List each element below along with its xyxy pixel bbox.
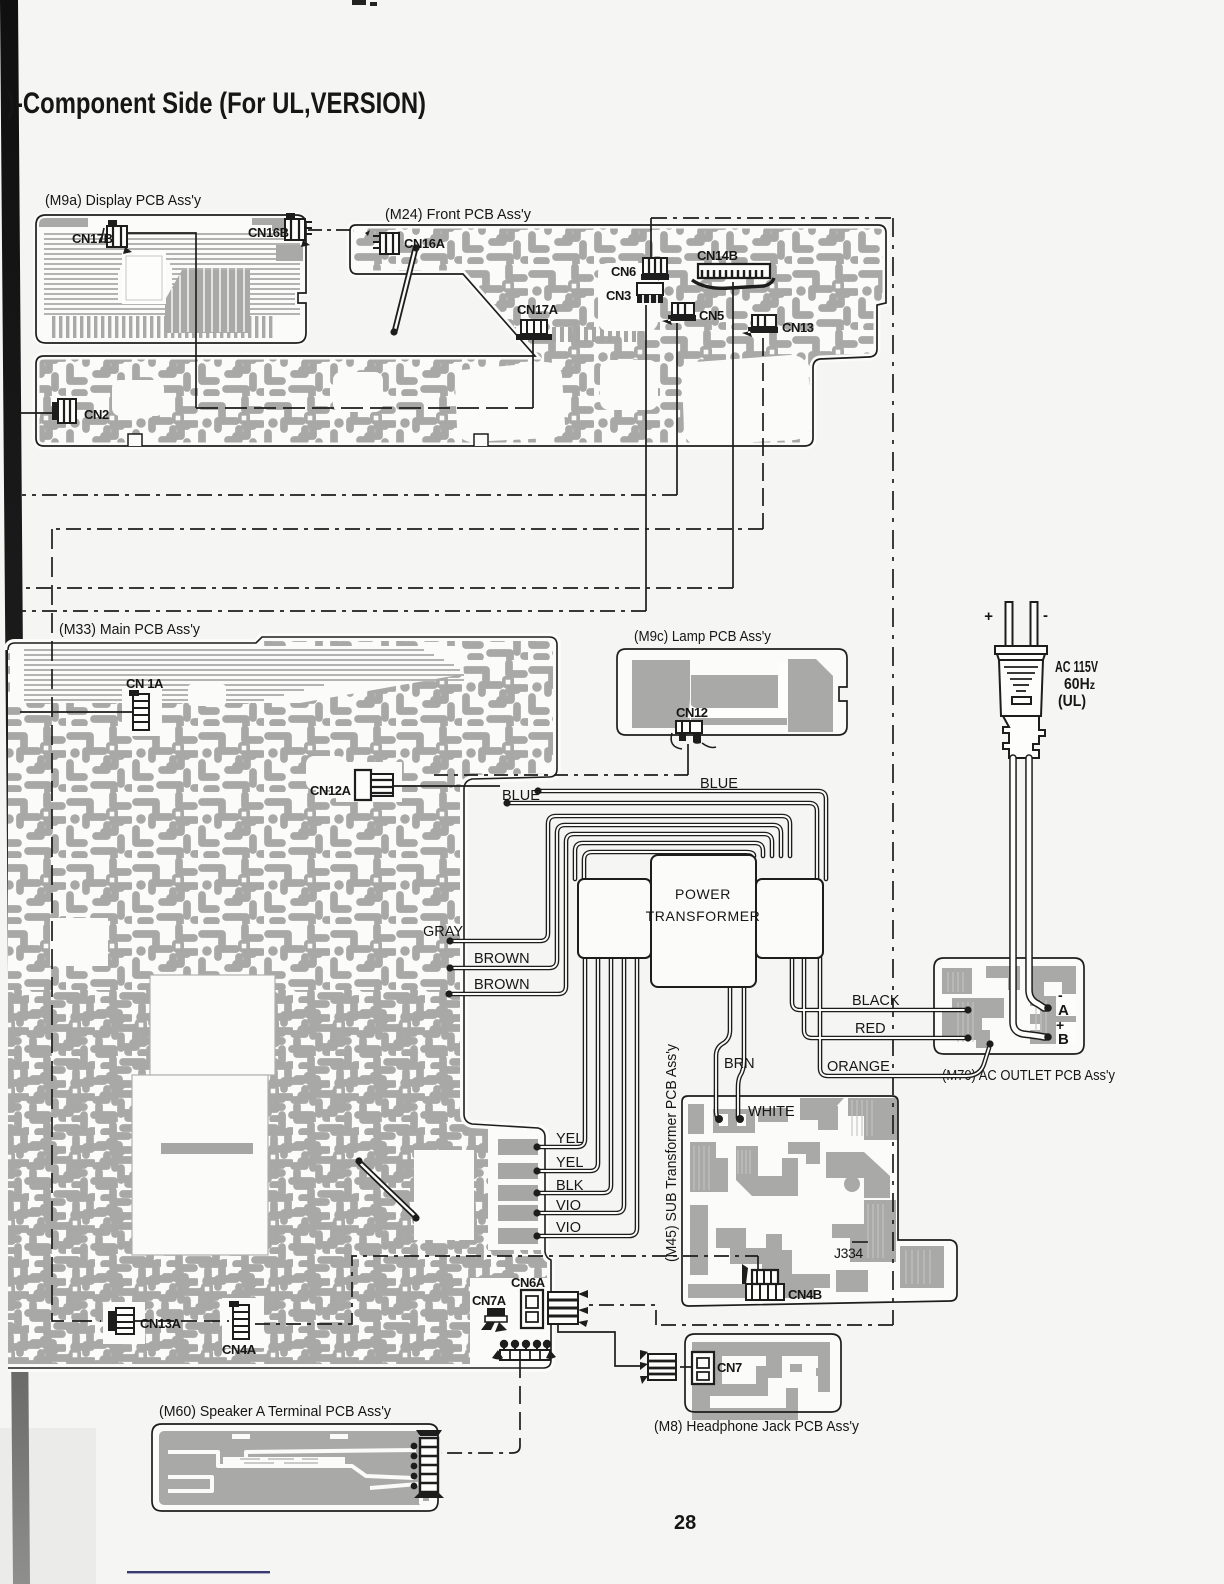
board M70 AC OUTLET PCB outline and traces bbox=[934, 958, 1084, 1054]
plug body bbox=[999, 660, 1043, 716]
svg-text:-: - bbox=[1043, 607, 1048, 624]
svg-text:(M9c) Lamp PCB Ass'y: (M9c) Lamp PCB Ass'y bbox=[634, 629, 772, 645]
svg-text:J334: J334 bbox=[834, 1245, 863, 1261]
svg-text:VIO: VIO bbox=[556, 1198, 581, 1214]
board M60 Speaker A Terminal PCB outline and traces bbox=[152, 1424, 438, 1511]
jumper wire on front pcb near CN16A bbox=[390, 244, 419, 335]
svg-text:AC 115V: AC 115V bbox=[1055, 659, 1098, 676]
connector CN7 bbox=[692, 1352, 714, 1384]
connector CN3 bbox=[637, 283, 663, 303]
scanner black bar left edge bbox=[0, 0, 30, 1584]
connector CN17B bbox=[101, 220, 132, 254]
wire dashed CN13A to CN4A bbox=[135, 1320, 229, 1322]
wire dashed CN17B to CN17A bbox=[196, 407, 533, 409]
wire CN12 drop to dash-dot bbox=[687, 744, 689, 775]
wire CN17A drop bbox=[532, 340, 534, 408]
svg-text:BLUE: BLUE bbox=[700, 776, 738, 792]
wire BLUE 1 bbox=[538, 791, 826, 879]
gray corner blobs bbox=[252, 215, 296, 231]
connector header with 5 dots (speaker wires) bbox=[492, 1340, 556, 1360]
svg-text:CN12: CN12 bbox=[676, 705, 708, 720]
wire dash-dot to speaker terminal bbox=[441, 1446, 520, 1453]
connector CN13 bbox=[742, 315, 778, 337]
svg-text:(UL): (UL) bbox=[1058, 693, 1086, 710]
connector CN14B bbox=[692, 264, 774, 288]
board M45 SUB Transformer PCB outline and traces bbox=[682, 1096, 957, 1306]
wire dash-dot CN16B to CN16A bbox=[308, 229, 352, 231]
svg-text:(M33) Main PCB Ass'y: (M33) Main PCB Ass'y bbox=[59, 622, 201, 638]
plug vent lines bbox=[1004, 667, 1038, 691]
power transformer right wing bbox=[756, 879, 823, 958]
AC power plug bbox=[995, 602, 1047, 758]
svg-text:28: 28 bbox=[674, 1512, 696, 1534]
connector CN12 bbox=[671, 721, 716, 749]
wire BLACK bbox=[792, 958, 966, 1010]
svg-text:)-Component Side (For UL,VERSI: )-Component Side (For UL,VERSION) bbox=[7, 87, 426, 120]
wire CN1A lead to left edge bbox=[20, 711, 132, 713]
large white component areas on front pcb bbox=[455, 362, 565, 442]
wire CN6A to headphone plug bbox=[558, 1324, 642, 1366]
white IC square bbox=[122, 252, 166, 304]
AC outlet pad dots A and B bbox=[1044, 1004, 1052, 1012]
svg-text:(M24) Front PCB Ass'y: (M24) Front PCB Ass'y bbox=[385, 207, 532, 223]
wire end dots bbox=[445, 787, 993, 1239]
svg-text:CN17B: CN17B bbox=[72, 231, 113, 246]
wire headphone plug to CN7 bbox=[680, 1366, 692, 1368]
wire VIO 1 bbox=[537, 958, 624, 1213]
connector CN6A bbox=[521, 1290, 543, 1328]
board M9a Display PCB outline and traces bbox=[36, 215, 306, 343]
svg-text:CN2: CN2 bbox=[84, 407, 109, 422]
svg-text:YEL: YEL bbox=[556, 1155, 583, 1171]
plug prong - bbox=[1031, 602, 1038, 648]
connector CN1A bbox=[129, 690, 149, 730]
connector CN7A bbox=[481, 1308, 507, 1332]
svg-text:BRN: BRN bbox=[724, 1056, 755, 1072]
scan specks top center bbox=[352, 0, 377, 6]
svg-text:B: B bbox=[1058, 1031, 1069, 1048]
wire ORANGE bbox=[820, 958, 989, 1076]
wire CN5 drop and dash-dot run L1 bbox=[676, 323, 678, 495]
notch on front pcb bottom edge bbox=[128, 434, 142, 446]
transformer wire harness (outlined wires) bbox=[449, 791, 989, 1236]
blue underline bottom left bbox=[127, 1571, 270, 1573]
svg-text:60Hz: 60Hz bbox=[1064, 676, 1095, 693]
svg-text:CN 1A: CN 1A bbox=[126, 676, 164, 691]
connector CN17A bbox=[516, 320, 552, 340]
svg-text:ORANGE: ORANGE bbox=[827, 1059, 890, 1075]
wire CN13 dashed drop bbox=[762, 338, 764, 529]
svg-text:CN14B: CN14B bbox=[697, 248, 738, 263]
board M33 Main PCB outline and traces bbox=[8, 637, 560, 1372]
svg-text:CN16A: CN16A bbox=[404, 236, 446, 251]
fine fan band at top of main pcb bbox=[10, 646, 464, 703]
wire BLUE 2 bbox=[507, 803, 817, 879]
svg-text:CN12A: CN12A bbox=[310, 783, 352, 798]
wire speaker header dashed drop bbox=[519, 1360, 521, 1446]
svg-text:-: - bbox=[1058, 987, 1063, 1003]
wire long vertical dashed at x=893 bbox=[892, 218, 894, 1325]
connector CN6A mating plug bbox=[548, 1290, 588, 1327]
svg-text:CN5: CN5 bbox=[699, 308, 724, 323]
svg-text:(M60) Speaker A Terminal PCB A: (M60) Speaker A Terminal PCB Ass'y bbox=[159, 1404, 392, 1420]
wire GRAY bbox=[450, 816, 790, 941]
wire dash-dot bottom run from x=893 to CN6A plug bbox=[656, 1324, 893, 1326]
wire CN4A to SUB CN4B chain bbox=[255, 1256, 758, 1324]
svg-text:VIO: VIO bbox=[556, 1220, 581, 1236]
svg-text:BLK: BLK bbox=[556, 1178, 584, 1194]
wire BROWN 1 bbox=[450, 825, 781, 968]
wire CN3 drop and run L4 bbox=[645, 305, 647, 611]
svg-text:WHITE: WHITE bbox=[748, 1104, 795, 1120]
fine fan traces bbox=[44, 234, 300, 314]
wire CN12A lead bbox=[392, 785, 500, 787]
svg-text:CN7A: CN7A bbox=[472, 1293, 507, 1308]
big white component areas on main pcb bbox=[150, 975, 275, 1075]
svg-text:CN13: CN13 bbox=[782, 320, 814, 335]
svg-text:BROWN: BROWN bbox=[474, 951, 530, 967]
svg-text:+: + bbox=[984, 608, 993, 625]
connector CN16A bbox=[365, 230, 399, 254]
wire WHITE bbox=[738, 960, 744, 1118]
svg-text:BLUE: BLUE bbox=[502, 788, 540, 804]
wire dash-dot top run to right corner bbox=[651, 217, 893, 219]
AC cord twin lead bbox=[1013, 758, 1046, 1037]
board M9c Lamp PCB outline and traces bbox=[617, 649, 847, 735]
connector CN16B bbox=[285, 213, 312, 247]
svg-text:BLACK: BLACK bbox=[852, 993, 900, 1009]
scan shading bottom-left bbox=[0, 1428, 96, 1584]
svg-text:YEL: YEL bbox=[556, 1131, 583, 1147]
stub pads for transformer wires on main pcb edge bbox=[498, 1139, 538, 1244]
svg-text:(M8) Headphone Jack PCB Ass': (M8) Headphone Jack PCB Ass'y bbox=[654, 1419, 860, 1435]
svg-text:TRANSFORMER: TRANSFORMER bbox=[646, 908, 761, 924]
plug neck with notches bbox=[1003, 716, 1045, 758]
svg-text:(M9a) Display PCB Ass'y: (M9a) Display PCB Ass'y bbox=[45, 193, 202, 209]
svg-text:CN16B: CN16B bbox=[248, 225, 289, 240]
wire CN6 riser to top dash-dot bbox=[650, 218, 652, 262]
board M24 Front PCB outline and traces bbox=[36, 225, 886, 446]
comb pads row on front pcb bbox=[392, 327, 636, 342]
connector CN13A bbox=[108, 1308, 134, 1334]
dark middle block of display (zigzag region) bbox=[165, 270, 250, 333]
wire CN17B link: right then down bbox=[127, 233, 196, 408]
wire harness filler 1 bbox=[575, 843, 763, 879]
wire dash-dot run L2 CN13 to left vertical bbox=[52, 528, 763, 530]
svg-text:CN6A: CN6A bbox=[511, 1275, 546, 1290]
svg-text:RED: RED bbox=[855, 1021, 886, 1037]
plug prong + bbox=[1006, 602, 1013, 648]
svg-text:CN6: CN6 bbox=[611, 264, 636, 279]
wire left vertical dashed to CN13A bbox=[52, 529, 101, 1321]
svg-text:CN13A: CN13A bbox=[140, 1316, 182, 1331]
bottom comb of display bbox=[52, 316, 272, 338]
svg-text:(M45) SUB Transformer PCB Ass': (M45) SUB Transformer PCB Ass'y bbox=[664, 1043, 680, 1262]
wire BRN bbox=[716, 960, 730, 1118]
interconnect dash-dot and wire lines bbox=[20, 218, 893, 1453]
svg-text:GRAY: GRAY bbox=[423, 924, 463, 940]
power transformer left wing bbox=[578, 879, 651, 958]
wire harness filler 2 bbox=[584, 852, 754, 879]
wire YEL 1 bbox=[537, 958, 585, 1147]
board M8 Headphone Jack PCB outline and traces bbox=[685, 1334, 841, 1420]
connector CN5 bbox=[662, 303, 696, 325]
connector CN6 bbox=[641, 258, 669, 280]
svg-text:CN17A: CN17A bbox=[517, 302, 559, 317]
wire VIO 2 bbox=[537, 958, 637, 1236]
plug cap bbox=[995, 646, 1047, 654]
wire YEL 2 bbox=[537, 958, 598, 1171]
connector CN2 bbox=[52, 399, 76, 423]
wire BLK bbox=[537, 958, 611, 1193]
svg-text:CN7: CN7 bbox=[717, 1360, 742, 1375]
wire CN14B drop and run L3 bbox=[732, 282, 734, 588]
connector CN12A bbox=[355, 770, 393, 800]
svg-text:CN4A: CN4A bbox=[222, 1342, 257, 1357]
wire BROWN 2 bbox=[449, 834, 772, 994]
wire RED bbox=[804, 958, 966, 1038]
connector CN4B bbox=[742, 1264, 784, 1300]
svg-text:CN4B: CN4B bbox=[788, 1287, 822, 1302]
wire CN6A plug chain bbox=[586, 1305, 656, 1325]
power transformer U1 body bbox=[651, 855, 756, 987]
connector headphone mating plug bbox=[640, 1350, 676, 1384]
svg-text:BROWN: BROWN bbox=[474, 977, 530, 993]
wire dash-dot CN12 to CN12A region bbox=[432, 774, 688, 776]
svg-text:CN3: CN3 bbox=[606, 288, 631, 303]
svg-text:POWER: POWER bbox=[675, 886, 731, 902]
jumper wire on main pcb bbox=[355, 1157, 419, 1221]
wire CN2 lead to left edge bbox=[20, 412, 56, 414]
connector speaker terminal block bbox=[411, 1430, 444, 1498]
connector CN4A bbox=[229, 1301, 249, 1339]
